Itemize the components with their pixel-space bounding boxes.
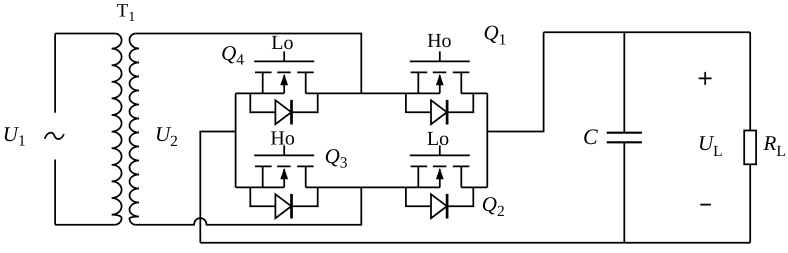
capacitor C plates — [607, 133, 642, 143]
transistor Q1 source leg — [417, 72, 419, 93]
wire: left bridge rail — [235, 93, 237, 187]
capacitor C bottom lead — [623, 142, 625, 243]
polarity plus sign — [699, 72, 712, 85]
wire: bottom row rail left section — [236, 186, 285, 188]
diode D2 (body diode of Q2) loop — [406, 187, 473, 206]
transistor Q3 gate line — [254, 154, 314, 156]
transistor Q2 gate lead — [439, 145, 441, 155]
transistor Q4 gate lead — [283, 51, 285, 61]
diode D2 cathode bar — [446, 194, 449, 219]
diode D3 cathode bar — [290, 194, 293, 219]
wire: top row rail right section — [461, 92, 487, 94]
diode D1 cathode bar — [446, 100, 449, 125]
wire: positive output tap (right rail to top rail) — [487, 32, 543, 131]
transistor Q1 body arrow — [436, 74, 444, 93]
svg-text:Lo: Lo — [427, 128, 449, 150]
diode D1 (body diode of Q1) loop — [406, 93, 473, 112]
transistor Q2 gate line — [410, 154, 470, 156]
transistor Q3 channel segments — [255, 165, 314, 167]
transistor Q3 gate lead — [283, 145, 285, 155]
wire: top row rail middle section — [306, 92, 440, 94]
wire: load branch bottom — [749, 164, 751, 243]
resistor RL — [744, 131, 756, 165]
transistor Q2 source leg — [417, 166, 419, 187]
transistor Q3 source leg — [262, 166, 264, 187]
wire: secondary top to bridge midpoint (node A) — [136, 34, 361, 94]
wire: top row rail left section — [236, 92, 285, 94]
transistor Q2 channel segments — [411, 165, 470, 167]
transistor Q2 drain leg — [460, 166, 462, 187]
svg-text:Ho: Ho — [427, 30, 451, 52]
transformer T1 primary winding — [112, 34, 122, 225]
diode D3 (body diode of Q3) loop — [250, 187, 317, 206]
transistor Q4 drain leg — [305, 72, 307, 93]
transistor Q1 gate line — [410, 60, 470, 62]
wire: right bridge rail — [486, 93, 488, 187]
transformer T1 secondary winding — [130, 34, 140, 225]
diode D4 (body diode of Q4) loop — [250, 93, 317, 112]
svg-text:Lo: Lo — [271, 32, 293, 54]
wire: bottom output rail — [200, 242, 750, 244]
wire: bottom row rail middle section — [306, 186, 440, 188]
wire: primary bottom — [55, 224, 115, 226]
diode D4 triangle — [275, 100, 291, 124]
transistor Q4 source leg — [262, 72, 264, 93]
diode D2 triangle — [431, 194, 447, 218]
wire: top output rail — [544, 31, 751, 33]
diode D4 cathode bar — [290, 100, 293, 125]
transistor Q4 body arrow — [280, 74, 288, 93]
wire: load branch top — [749, 32, 751, 130]
diode D1 triangle — [431, 100, 447, 124]
wire: primary top — [55, 33, 115, 35]
AC source symbol ~ — [45, 133, 64, 139]
transistor Q4 gate line — [254, 60, 314, 62]
wire: secondary bottom to bridge midpoint (node B) with crossover hop — [136, 187, 361, 224]
wire: negative output tap (left rail to bottom rail) — [200, 132, 235, 243]
AC source U1 branch (left vertical wire with gap) — [54, 34, 56, 225]
transistor Q4 channel segments — [255, 71, 314, 73]
capacitor C top lead — [623, 32, 625, 133]
transistor Q1 drain leg — [460, 72, 462, 93]
transistor Q2 body arrow — [436, 168, 444, 187]
transistor Q3 body arrow — [280, 168, 288, 187]
svg-text:C: C — [583, 124, 598, 149]
svg-text:Ho: Ho — [270, 127, 294, 149]
polarity minus sign — [700, 204, 711, 206]
transistor Q1 channel segments — [411, 71, 470, 73]
transistor Q3 drain leg — [305, 166, 307, 187]
diode D3 triangle — [275, 194, 291, 218]
transistor Q1 gate lead — [439, 51, 441, 61]
wire: bottom row rail right section — [461, 186, 487, 188]
